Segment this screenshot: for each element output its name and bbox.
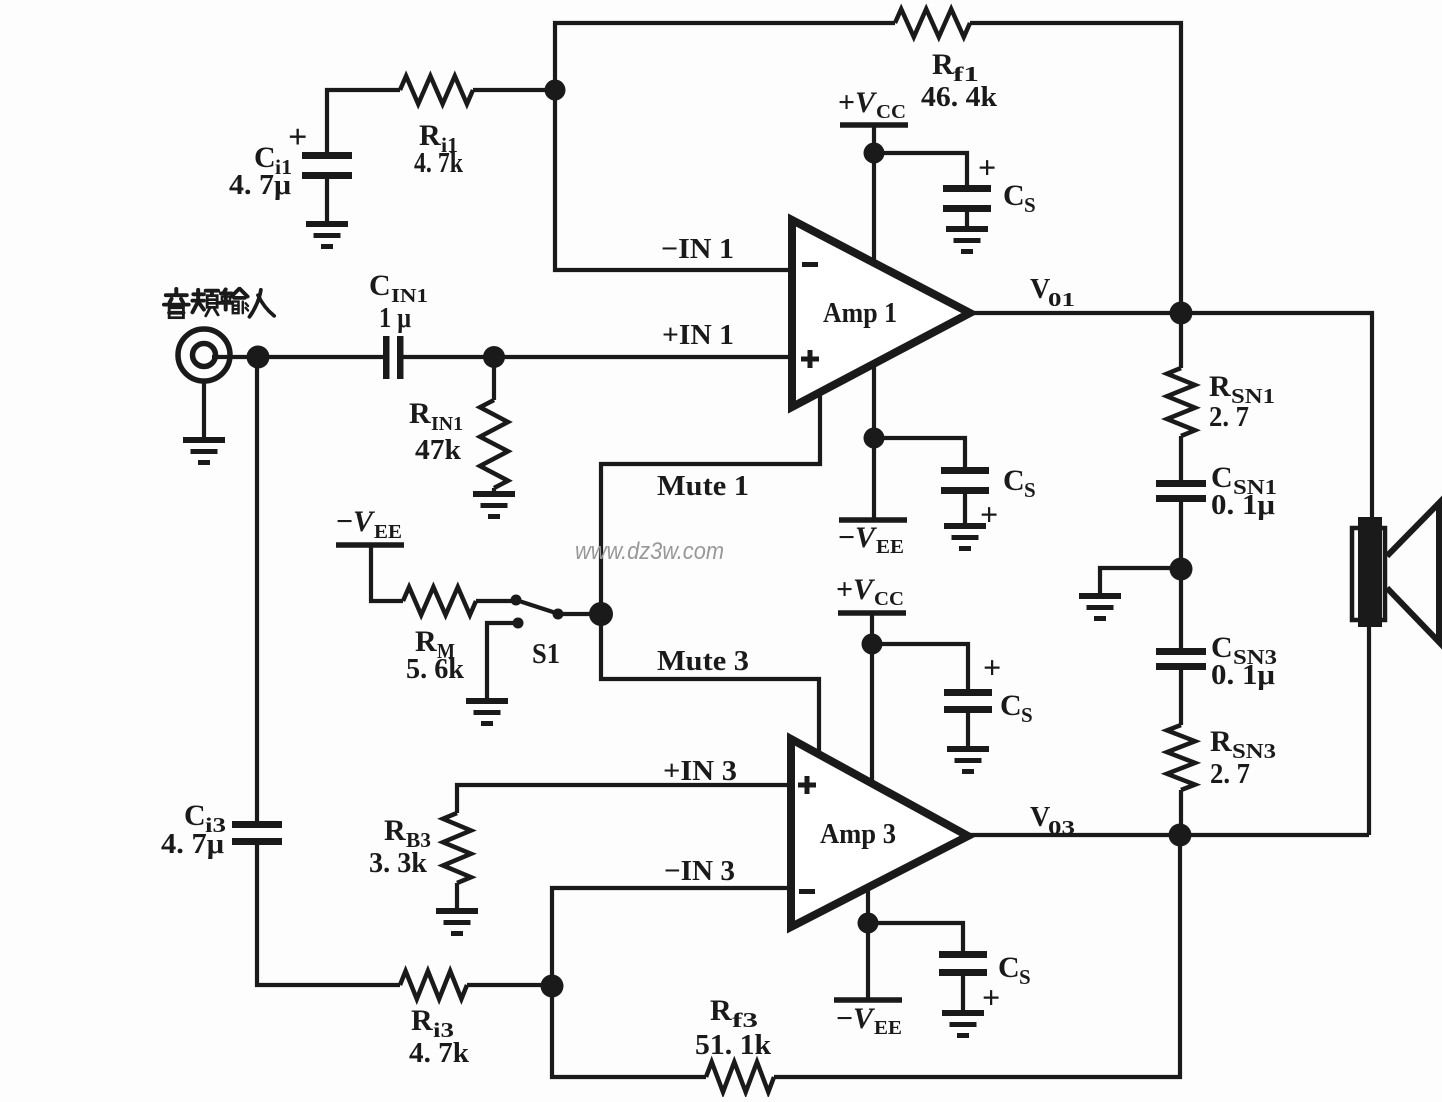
svg-text:IN1: IN1 — [431, 413, 463, 435]
capacitor CIN1 1u (series) — [383, 336, 390, 379]
svg-text:EE: EE — [374, 521, 402, 543]
svg-text:0. 1μ: 0. 1μ — [1211, 489, 1276, 521]
wire center tap to ground — [1100, 568, 1181, 594]
audio input connector (RCA jack) — [178, 329, 230, 381]
svg-text:R: R — [710, 994, 732, 1027]
svg-text:−: − — [336, 505, 353, 538]
svg-text:Mute 1: Mute 1 — [657, 470, 749, 502]
resistor RM 5.6k — [403, 587, 476, 615]
svg-text:V: V — [855, 521, 878, 554]
op-amp Amp 1 — [792, 220, 970, 407]
svg-text:V: V — [853, 573, 876, 606]
ground below CS amp3 top — [947, 746, 989, 752]
resistor RSN3 2.7 — [1167, 725, 1195, 790]
svg-text:46. 4k: 46. 4k — [921, 81, 998, 113]
left rail: input node down to Ci3 — [255, 357, 259, 822]
op-amp Amp 3 — [791, 739, 968, 927]
ground at snubber center — [1079, 593, 1121, 599]
node V01 — [1170, 302, 1193, 325]
svg-text:R: R — [384, 814, 406, 847]
bypass capacitor CS (amp3 top) — [872, 644, 968, 692]
-VEE supply Amp1 — [872, 364, 876, 520]
svg-text:C: C — [1003, 179, 1025, 212]
svg-text:5. 6k: 5. 6k — [406, 653, 465, 685]
wire bottom rail to Ri3 node — [552, 986, 706, 1077]
svg-text:+IN 3: +IN 3 — [663, 755, 737, 787]
node at -VEE branch — [864, 428, 885, 449]
resistor Ri1 — [400, 76, 473, 104]
wire Ci3 down and across through Ri3 — [257, 843, 400, 985]
speaker — [1367, 626, 1371, 835]
wire V01 output to speaker — [970, 313, 1372, 520]
node at +VCC branch — [864, 143, 885, 164]
svg-text:03: 03 — [1048, 817, 1075, 839]
svg-text:R: R — [1210, 725, 1232, 758]
svg-text:S1: S1 — [532, 638, 560, 670]
svg-text:R: R — [409, 397, 431, 430]
ground below Ci1 — [306, 221, 348, 227]
wire CIN1 to +IN1 node and on to amp1 + input — [403, 355, 792, 359]
svg-text:−IN 1: −IN 1 — [661, 233, 734, 265]
ground below connector — [202, 381, 206, 437]
svg-text:V: V — [353, 505, 376, 538]
svg-text:+: + — [983, 649, 1001, 685]
wire V03 node down to bottom feedback rail — [774, 835, 1180, 1077]
switch S1 — [511, 595, 522, 606]
svg-text:www.dz3w.com: www.dz3w.com — [575, 538, 724, 565]
svg-text:−: − — [838, 521, 855, 554]
svg-text:4. 7k: 4. 7k — [414, 147, 464, 179]
svg-text:+: + — [978, 149, 996, 185]
svg-text:S: S — [1024, 478, 1036, 502]
svg-text:EE: EE — [876, 536, 904, 558]
ground below RIN1 — [473, 491, 515, 497]
svg-text:C: C — [1000, 689, 1022, 722]
svg-text:R: R — [932, 48, 954, 81]
node V03 — [1169, 824, 1192, 847]
svg-text:2. 7: 2. 7 — [1209, 401, 1249, 433]
svg-text:47k: 47k — [415, 434, 462, 466]
node at -VEE branch amp3 — [858, 913, 879, 934]
svg-text:+IN 1: +IN 1 — [662, 319, 734, 351]
wire Ri1 to node A — [473, 88, 555, 92]
svg-text:−IN 3: −IN 3 — [664, 855, 735, 887]
svg-text:CC: CC — [876, 101, 906, 123]
svg-text:R: R — [1209, 370, 1231, 403]
resistor RIN1 47k — [492, 357, 496, 400]
wire -IN 3 to amp3 — [552, 888, 791, 986]
svg-text:+: + — [838, 86, 855, 119]
svg-text:S: S — [1019, 965, 1031, 989]
resistor RB3 3.3k with +IN3 wire — [457, 785, 791, 813]
wire V03 output — [968, 833, 1369, 837]
resistor Rf1 — [895, 9, 970, 37]
svg-text:Amp 1: Amp 1 — [823, 298, 897, 329]
wire -IN 1 from node A down to amp1 — [555, 90, 792, 270]
svg-text:Amp 3: Amp 3 — [820, 819, 896, 850]
svg-text:4. 7μ: 4. 7μ — [229, 169, 292, 201]
svg-text:Mute 3: Mute 3 — [657, 645, 749, 677]
ground below CS — [944, 523, 986, 529]
svg-text:EE: EE — [874, 1017, 902, 1039]
svg-text:51. 1k: 51. 1k — [695, 1029, 772, 1061]
resistor RSN1 2.7 — [1179, 313, 1183, 368]
wire top feedback loop from node A up and across to right rail — [555, 23, 895, 92]
mid node (snubber center tap) — [1170, 558, 1193, 581]
-VEE supply Amp3 — [866, 887, 870, 1000]
svg-text:V: V — [855, 86, 878, 119]
svg-text:C: C — [1003, 464, 1025, 497]
resistor Rf3 51.1k — [706, 1062, 774, 1092]
svg-text:2. 7: 2. 7 — [1210, 758, 1250, 790]
svg-text:R: R — [411, 1004, 433, 1037]
svg-text:4. 7k: 4. 7k — [409, 1037, 470, 1069]
wire Rf1 to right rail down to V01 — [970, 23, 1181, 315]
capacitor Ci1 4.7u — [327, 90, 400, 158]
svg-text:4. 7μ: 4. 7μ — [161, 828, 225, 860]
svg-text:+: + — [982, 979, 1000, 1015]
capacitor CSN1 0.1u — [1156, 480, 1206, 487]
wire Mute 1 from amp1 to mute bus — [601, 392, 820, 616]
capacitor CSN3 0.1u — [1156, 648, 1206, 655]
svg-text:0. 1μ: 0. 1μ — [1211, 659, 1276, 691]
node at CIN1/RIN1 junction — [483, 346, 505, 368]
mute bus node — [589, 602, 613, 626]
node at +VCC branch amp3 — [862, 634, 883, 655]
svg-text:+: + — [980, 496, 998, 532]
svg-text:S: S — [1024, 193, 1036, 217]
ground below RB3 — [436, 908, 478, 914]
ground below CS — [946, 226, 988, 232]
ground below CS amp3 bottom — [942, 1010, 984, 1016]
node A (Ri1/Rf1 junction) — [545, 80, 566, 101]
svg-text:CC: CC — [874, 588, 904, 610]
svg-text:−: − — [836, 1002, 853, 1035]
bypass capacitor CS (amp3 bottom) — [868, 923, 963, 954]
svg-text:01: 01 — [1048, 289, 1075, 311]
wire Mute 3 from bus to amp3 — [601, 614, 819, 755]
ground below S1 — [466, 698, 508, 704]
wire switch lower contact to ground — [487, 623, 514, 700]
input node — [247, 346, 270, 369]
node Ri3/Rf3/-IN3 junction — [541, 975, 564, 998]
capacitor Ci3 4.7u — [232, 821, 282, 828]
bypass capacitor CS (amp1 top) — [874, 153, 967, 188]
svg-text:C: C — [998, 951, 1020, 984]
svg-text:+: + — [288, 119, 307, 156]
label audio input (drawn CJK glyphs 音频输入) — [164, 289, 274, 318]
svg-text:C: C — [369, 269, 391, 302]
svg-text:3. 3k: 3. 3k — [369, 847, 428, 879]
wire connector to input node — [212, 355, 384, 359]
svg-text:+: + — [836, 573, 853, 606]
resistor Ri3 4.7k — [400, 971, 467, 999]
svg-text:V: V — [853, 1002, 876, 1035]
svg-text:1 μ: 1 μ — [379, 302, 411, 334]
svg-text:S: S — [1021, 703, 1033, 727]
bypass capacitor CS (amp1 bottom) — [874, 438, 965, 470]
